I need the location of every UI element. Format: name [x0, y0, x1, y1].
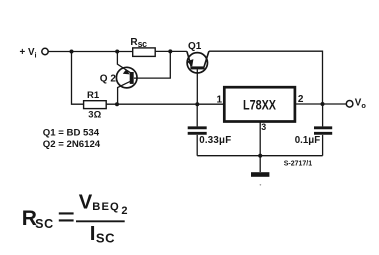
wire pin 3 to ground bus	[259, 122, 261, 156]
label Q1	[188, 41, 202, 52]
wire node A down to R1	[72, 52, 84, 105]
svg-text:0.1μF: 0.1μF	[295, 135, 320, 146]
svg-text:1: 1	[217, 95, 223, 106]
label Vo	[355, 98, 367, 111]
wire Q2 base to node C	[134, 51, 170, 78]
transistor Q2	[116, 52, 137, 105]
wire Q1 collector to output node	[209, 51, 323, 104]
svg-text:S-2717/1: S-2717/1	[284, 160, 313, 167]
node output junction	[321, 102, 325, 106]
wire R1 to regulator pin 1	[106, 103, 224, 105]
formula Rsc = Vbeq2 / Isc	[22, 191, 128, 245]
wire Rsc to Q1 emitter	[155, 50, 187, 52]
wire input rail	[48, 51, 132, 53]
label schematic number S-2717/1	[284, 160, 313, 167]
terminal Vo	[346, 101, 353, 108]
capacitor C2 0.1uF	[314, 104, 332, 156]
svg-text:Q1: Q1	[188, 41, 202, 52]
label Q1 type BD 534	[43, 127, 100, 138]
svg-text:0.33μF: 0.33μF	[199, 135, 231, 146]
label Q2 type 2N6124	[43, 139, 101, 150]
svg-text:ISC: ISC	[90, 222, 115, 246]
svg-text:2: 2	[298, 94, 304, 105]
svg-text:R1: R1	[87, 90, 100, 101]
label 3 ohm	[88, 109, 101, 120]
svg-text:VBEQ2: VBEQ2	[79, 191, 128, 217]
resistor R1	[84, 101, 107, 109]
capacitor C1 0.33uF	[188, 104, 207, 156]
node D (R1 / Q2 collector)	[115, 102, 119, 106]
wire ground bus	[197, 155, 322, 157]
resistor Rsc	[133, 48, 156, 57]
svg-text:+ Vi: + Vi	[20, 47, 37, 60]
label Rsc	[130, 37, 147, 49]
fraction bar	[76, 220, 125, 222]
wire ground stub	[259, 156, 261, 172]
label L78XX	[243, 97, 276, 112]
svg-text:Q1 = BD 534: Q1 = BD 534	[43, 127, 100, 138]
svg-text:Q 2: Q 2	[100, 74, 117, 85]
node B (Q2 emitter tap)	[115, 50, 119, 54]
regulator U1 L78XX	[224, 87, 295, 121]
label +Vi	[20, 47, 37, 60]
label 0.1uF	[295, 135, 320, 146]
svg-text:3Ω: 3Ω	[88, 109, 101, 120]
label Q2	[100, 74, 117, 85]
svg-text:Vo: Vo	[355, 98, 367, 111]
svg-text:RSC: RSC	[22, 207, 54, 231]
terminal +Vi	[42, 48, 48, 54]
node ground junction	[258, 154, 262, 158]
artifact dot below ground	[260, 184, 262, 186]
pin 2 label	[298, 94, 304, 105]
pin 1 label	[217, 95, 223, 106]
label 0.33uF	[199, 135, 231, 146]
label R1	[87, 90, 100, 101]
node Q1 base / C1 junction	[195, 102, 199, 106]
svg-text:L78XX: L78XX	[243, 97, 276, 112]
svg-text:Rsc: Rsc	[130, 37, 147, 49]
wire pin 2 to output node	[295, 103, 347, 105]
pin 3 label	[261, 122, 266, 132]
svg-text:Q2 = 2N6124: Q2 = 2N6124	[43, 139, 101, 150]
svg-text:3: 3	[261, 122, 266, 132]
ground	[251, 172, 269, 177]
node A (Vi / R1 / Q2-emitter rail)	[70, 50, 74, 54]
transistor Q1	[187, 51, 209, 104]
node C (Rsc / Q1 emitter / Q2 base)	[168, 49, 172, 53]
